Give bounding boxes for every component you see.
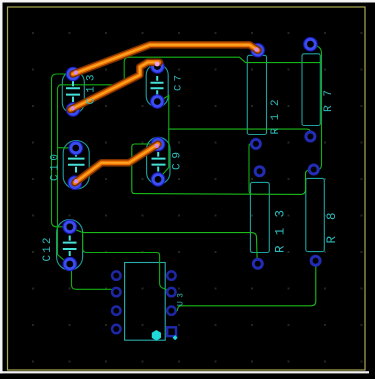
C10 pad 1 bbox=[71, 143, 81, 153]
pad-trace glow C7 pad1 bbox=[155, 62, 160, 67]
R8 pad 1 bbox=[309, 165, 318, 174]
U3 pad 5 (square) bbox=[167, 327, 176, 336]
wire stub to C10 top pad bbox=[58, 147, 73, 149]
wire V2: H1 elbow down to C12 bottom pad bbox=[58, 85, 66, 262]
pad-trace glow R12 pad1 bbox=[254, 47, 258, 51]
wire H1 through C13 bbox=[60, 57, 129, 85]
window frame white bottom bbox=[0, 371, 369, 373]
U3 pad 1 bbox=[112, 271, 120, 279]
svg-text:C12: C12 bbox=[42, 238, 54, 262]
wire from U3 right pad 3 to R8 bottom pad bbox=[173, 263, 316, 312]
pad-trace glow C13 pad1 bbox=[74, 70, 78, 74]
C7 plates bbox=[151, 76, 164, 95]
svg-text:R13: R13 bbox=[274, 210, 288, 253]
trace T2: C13 pad2 to C7 pad1 bbox=[71, 62, 160, 109]
C12 pad 1 bbox=[65, 222, 75, 232]
capacitor C13 outline bbox=[62, 71, 84, 114]
U3 pin1 hexagon marker bbox=[152, 330, 161, 341]
U3 pad 8 bbox=[167, 271, 175, 279]
pad-trace glow C13 pad2 bbox=[71, 106, 75, 110]
wire from R7 top pad down right side to R8 top pad bbox=[312, 45, 322, 170]
R12 pad 1 bbox=[253, 45, 263, 55]
capacitor C7 outline bbox=[146, 64, 168, 107]
cyan dot marker bbox=[173, 335, 178, 340]
R13 pad 1 bbox=[255, 167, 264, 176]
pad-trace glow C9 pad1 bbox=[155, 144, 159, 148]
svg-text:C10: C10 bbox=[50, 154, 62, 181]
IC U3 outline bbox=[125, 263, 166, 341]
C9 pad 2 bbox=[153, 174, 163, 184]
wire V3 from H6 down around to U3 right pad 2 bbox=[83, 234, 170, 292]
U3 pad 2 bbox=[112, 288, 120, 296]
R12 pad 2 bbox=[251, 139, 260, 148]
wire from C7 bottom pad down to junction and C9 bottom pad bbox=[158, 96, 169, 180]
C7 pad 1 bbox=[152, 61, 162, 71]
capacitor C9 outline bbox=[147, 137, 170, 184]
resistor R7 outline bbox=[302, 54, 320, 126]
U3 pad 6 bbox=[167, 307, 175, 315]
U3 pad 7 bbox=[167, 288, 175, 296]
wire from R12 bottom pad down to H5 bbox=[249, 144, 253, 194]
U3 pad 4 bbox=[112, 325, 120, 333]
svg-text:C13: C13 bbox=[86, 75, 98, 105]
wire H2 top horizontal bbox=[128, 57, 322, 62]
C10 pad 2 bbox=[70, 178, 80, 188]
C10 plates bbox=[68, 152, 85, 173]
trace T1: C13 pad1 to R12 pad1 bbox=[73, 45, 258, 74]
C13 pad 2 bbox=[68, 104, 78, 114]
pad-trace glow C10 pad2 bbox=[74, 179, 78, 183]
C12 pad 2 bbox=[65, 259, 75, 269]
C9 pad 1 bbox=[153, 139, 163, 149]
wire from C9 top pad west down to H5 east to R8 top pad bbox=[132, 144, 313, 194]
svg-text:R12: R12 bbox=[270, 100, 282, 135]
resistor R8 outline bbox=[306, 178, 325, 251]
C7 pad 2 bbox=[152, 96, 162, 106]
C13 plates bbox=[66, 81, 80, 102]
R8 pad 2 bbox=[311, 256, 320, 265]
wire from C12 bottom pad to U3 left pad 2 bbox=[71, 266, 115, 291]
capacitor C10 outline bbox=[63, 141, 89, 190]
capacitor C12 outline bbox=[57, 220, 83, 271]
wire V1: C13 top pad - west - down - C12 top pad bbox=[52, 74, 71, 227]
window frame white top bbox=[0, 0, 375, 3]
wire H4 to R7 bottom pad bbox=[169, 129, 311, 135]
R13 pad 2 bbox=[253, 259, 262, 268]
R7 pad 1 bbox=[305, 39, 315, 49]
C12 plates bbox=[63, 236, 77, 257]
grid dots bbox=[32, 32, 363, 363]
resistor R12 outline bbox=[247, 55, 266, 134]
wire H6 from C12 top pad to R13 bottom pad bbox=[71, 228, 258, 262]
R7 pad 2 bbox=[306, 132, 315, 141]
trace T3: C10 pad2 to C9 pad1 bbox=[75, 144, 158, 183]
U3 pad 3 bbox=[112, 307, 120, 315]
resistor R13 outline bbox=[250, 182, 269, 252]
window frame white left bbox=[0, 0, 3, 374]
C13 pad 1 bbox=[68, 69, 78, 79]
C9 plates bbox=[152, 152, 166, 172]
